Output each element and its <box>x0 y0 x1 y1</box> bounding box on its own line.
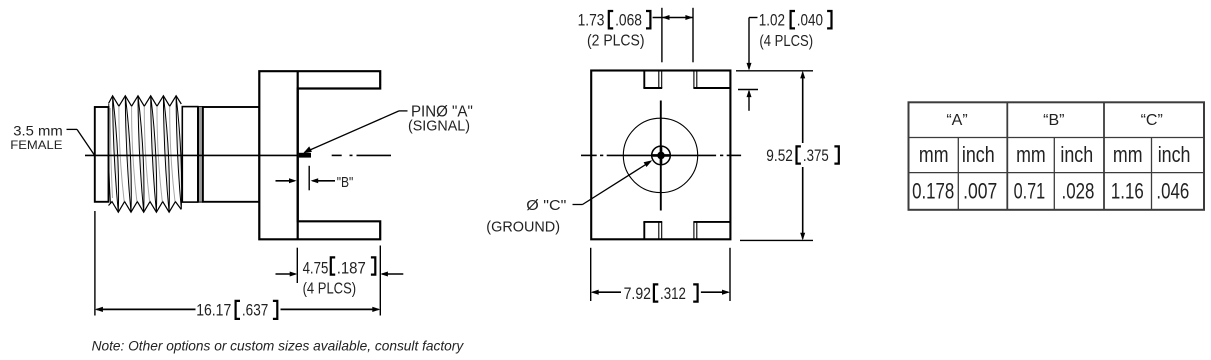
table units row mm/inch <box>919 142 1191 167</box>
svg-text:(2 PLCS): (2 PLCS) <box>587 32 645 49</box>
left cap <box>95 107 109 202</box>
9.52 dimension <box>736 70 813 72</box>
pin (signal) <box>299 153 311 158</box>
9.52 [.375] label <box>766 146 839 164</box>
svg-text:"B": "B" <box>337 175 354 191</box>
svg-text:1.02: 1.02 <box>759 12 785 30</box>
svg-text:.028: .028 <box>1062 179 1095 204</box>
svg-text:.040: .040 <box>797 12 823 30</box>
ground leader <box>573 204 583 206</box>
ring section after threads <box>182 107 198 203</box>
svg-text:0.178: 0.178 <box>912 179 954 204</box>
svg-text:inch: inch <box>1060 142 1093 167</box>
1.02 [.040] label <box>759 11 832 50</box>
svg-text:0.71: 0.71 <box>1014 179 1046 204</box>
svg-text:“A”: “A” <box>946 112 967 129</box>
svg-text:mm: mm <box>1016 142 1046 167</box>
top slot 2 <box>693 71 695 89</box>
svg-text:FEMALE: FEMALE <box>10 138 62 152</box>
bottom slot 1 <box>643 222 645 239</box>
svg-text:.637: .637 <box>242 302 268 320</box>
table values row <box>912 179 1189 204</box>
svg-text:inch: inch <box>1158 142 1191 167</box>
svg-text:mm: mm <box>919 142 949 167</box>
svg-text:3.5 mm: 3.5 mm <box>13 122 63 138</box>
B dimension <box>308 166 310 191</box>
flange inner full-height line <box>297 71 299 239</box>
svg-text:.068: .068 <box>615 12 642 30</box>
flange with arms (C shape) <box>259 71 380 239</box>
threads <box>108 96 181 212</box>
svg-text:(4 PLCS): (4 PLCS) <box>303 281 357 298</box>
bottom slot 2 <box>693 222 695 239</box>
svg-text:(SIGNAL): (SIGNAL) <box>408 117 470 134</box>
svg-text:.007: .007 <box>963 179 997 204</box>
svg-text:4.75: 4.75 <box>303 260 329 278</box>
svg-text:(4 PLCS): (4 PLCS) <box>759 33 813 50</box>
svg-text:(GROUND): (GROUND) <box>486 219 560 236</box>
16.17 dimension <box>94 211 96 316</box>
svg-text:.046: .046 <box>1156 179 1189 204</box>
7.92 [.312] label <box>624 284 698 303</box>
table header row A B C <box>946 112 1162 129</box>
pin leader <box>305 111 400 152</box>
gray groove <box>199 107 203 203</box>
svg-text:Note: Other options or custom: Note: Other options or custom sizes avai… <box>92 338 465 354</box>
svg-text:9.52: 9.52 <box>766 147 793 165</box>
3.5mm female leader <box>67 128 78 130</box>
16.17 [.637] label <box>196 301 277 320</box>
centerline left view <box>85 154 298 156</box>
1.73 dimension <box>661 8 663 63</box>
svg-text:16.17: 16.17 <box>196 302 231 320</box>
svg-text:1.73: 1.73 <box>578 12 605 30</box>
horizontal centerline dash-dot <box>581 154 597 156</box>
vertical centerline <box>660 101 662 211</box>
large circle <box>623 118 697 192</box>
4.75 dimension <box>296 248 298 283</box>
1.02 dimension leader <box>749 17 758 19</box>
7.92 dimension <box>590 248 592 301</box>
svg-text:1.16: 1.16 <box>1111 179 1144 204</box>
svg-text:mm: mm <box>1113 142 1143 167</box>
svg-text:.187: .187 <box>337 260 366 278</box>
svg-text:.375: .375 <box>803 147 829 165</box>
center mark <box>660 147 663 164</box>
small circle <box>652 146 671 165</box>
svg-text:inch: inch <box>962 142 995 167</box>
square body <box>591 71 730 240</box>
svg-text:“B”: “B” <box>1043 112 1064 129</box>
body <box>203 107 259 202</box>
4.75 [.187] label <box>303 257 376 297</box>
svg-text:.312: .312 <box>660 285 686 303</box>
1.73 [.068] label <box>578 11 651 49</box>
svg-text:Ø "C": Ø "C" <box>526 197 566 214</box>
svg-text:7.92: 7.92 <box>624 285 651 303</box>
top slot 1 <box>643 71 645 89</box>
svg-text:“C”: “C” <box>1141 112 1163 129</box>
